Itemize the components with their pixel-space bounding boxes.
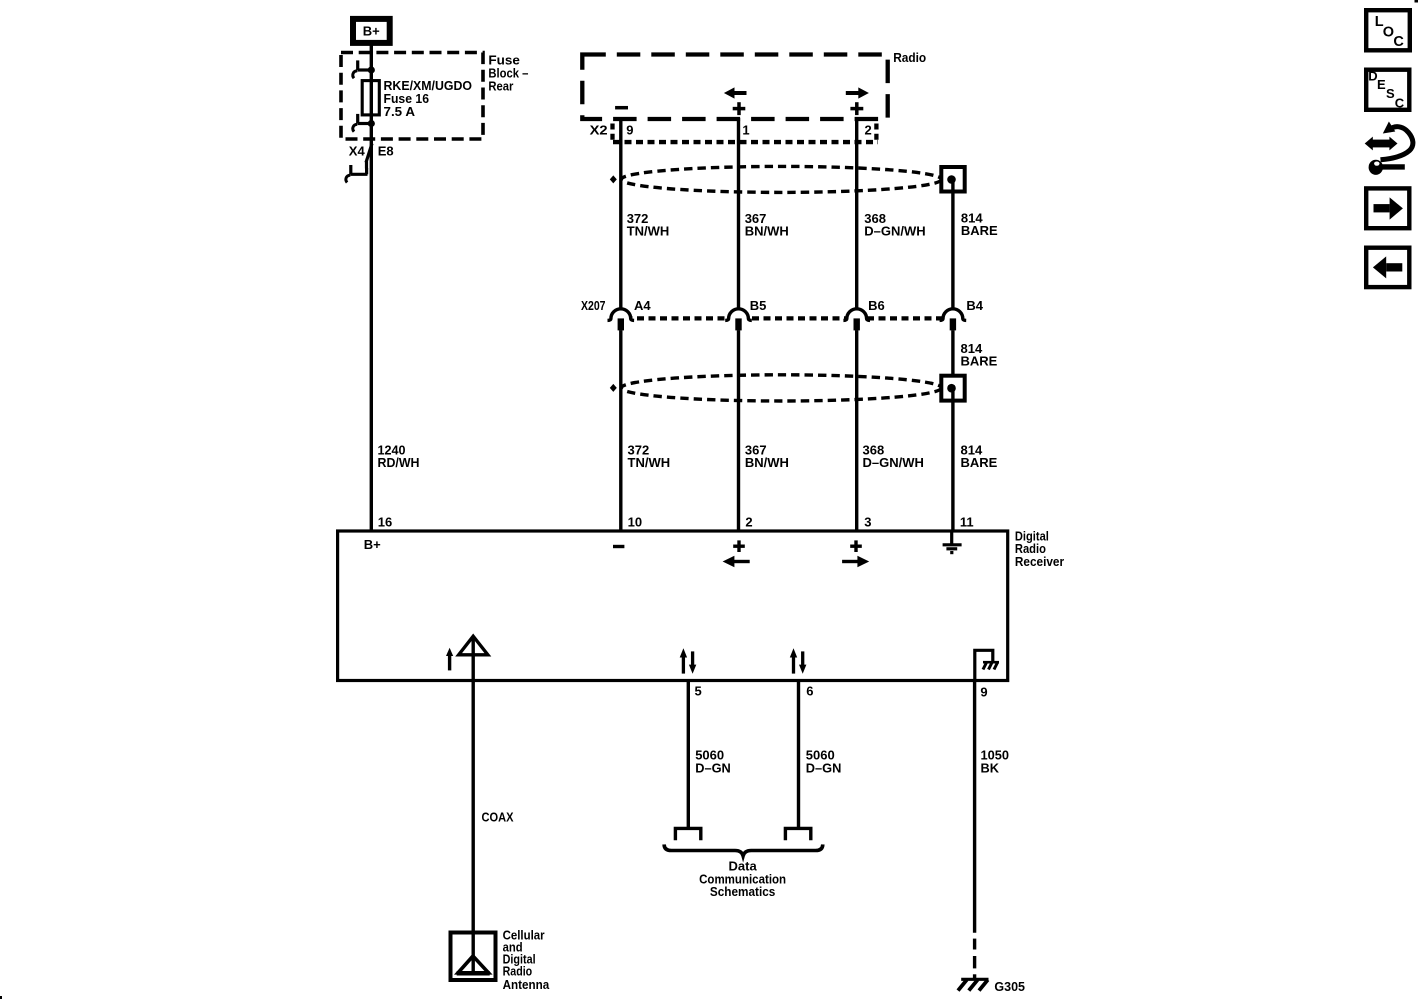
svg-text:BN/WH: BN/WH bbox=[745, 224, 789, 239]
svg-text:C: C bbox=[1393, 34, 1404, 50]
svg-text:D–GN/WH: D–GN/WH bbox=[863, 455, 924, 470]
svg-text:TN/WH: TN/WH bbox=[628, 455, 671, 470]
svg-text:TN/WH: TN/WH bbox=[627, 224, 670, 239]
svg-text:B4: B4 bbox=[966, 298, 983, 313]
svg-text:6: 6 bbox=[806, 684, 813, 699]
svg-text:O: O bbox=[1383, 25, 1394, 41]
svg-text:A4: A4 bbox=[634, 298, 651, 313]
svg-text:BK: BK bbox=[981, 761, 1000, 776]
svg-text:Radio: Radio bbox=[893, 50, 926, 65]
svg-text:9: 9 bbox=[626, 123, 633, 138]
svg-text:2: 2 bbox=[745, 515, 752, 530]
svg-text:Schematics: Schematics bbox=[710, 884, 776, 899]
svg-text:3: 3 bbox=[864, 515, 871, 530]
svg-text:9: 9 bbox=[980, 685, 987, 700]
svg-text:C: C bbox=[1395, 95, 1405, 110]
svg-text:RD/WH: RD/WH bbox=[378, 455, 420, 470]
svg-text:E: E bbox=[1377, 77, 1386, 92]
svg-text:G305: G305 bbox=[994, 979, 1025, 994]
svg-text:Receiver: Receiver bbox=[1015, 554, 1064, 569]
svg-text:2: 2 bbox=[865, 123, 872, 138]
svg-text:X4: X4 bbox=[349, 144, 366, 159]
svg-text:BARE: BARE bbox=[961, 223, 998, 238]
svg-text:7.5 A: 7.5 A bbox=[384, 104, 416, 119]
svg-text:1: 1 bbox=[742, 123, 749, 138]
svg-text:S: S bbox=[1386, 86, 1395, 101]
svg-text:16: 16 bbox=[378, 515, 392, 530]
svg-text:BN/WH: BN/WH bbox=[745, 455, 789, 470]
svg-text:5: 5 bbox=[695, 684, 702, 699]
svg-text:D–GN/WH: D–GN/WH bbox=[864, 224, 925, 239]
svg-text:B5: B5 bbox=[750, 298, 767, 313]
svg-text:B6: B6 bbox=[868, 298, 885, 313]
svg-text:11: 11 bbox=[960, 515, 974, 530]
svg-text:Rear: Rear bbox=[488, 79, 513, 94]
svg-text:B+: B+ bbox=[364, 537, 381, 552]
svg-text:E8: E8 bbox=[378, 144, 394, 159]
svg-text:10: 10 bbox=[628, 515, 642, 530]
svg-text:BARE: BARE bbox=[961, 353, 998, 368]
svg-text:X2: X2 bbox=[590, 123, 608, 138]
svg-text:X207: X207 bbox=[581, 298, 606, 313]
svg-text:COAX: COAX bbox=[482, 810, 514, 825]
svg-text:D–GN: D–GN bbox=[695, 761, 731, 776]
svg-text:D–GN: D–GN bbox=[806, 761, 842, 776]
svg-text:B+: B+ bbox=[363, 24, 380, 39]
svg-text:BARE: BARE bbox=[961, 455, 998, 470]
svg-text:Antenna: Antenna bbox=[503, 977, 550, 992]
